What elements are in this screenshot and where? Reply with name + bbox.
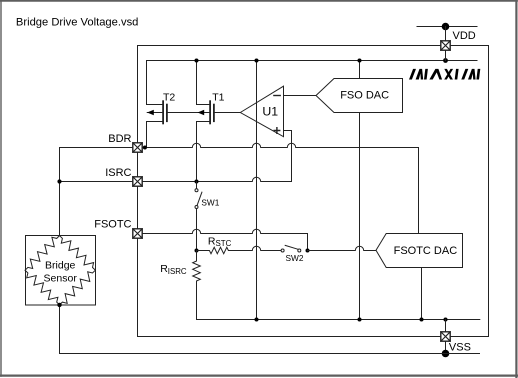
wire: SW2 node to FSOTC DAC input	[308, 246, 377, 250]
node: VDD external dot	[442, 23, 450, 31]
pin ISRC	[133, 177, 142, 186]
bridge sensor resistor top-right	[60, 236, 96, 271]
node: external ISRC-BDR junction dot	[57, 179, 61, 183]
node: BDR junction dot	[143, 146, 147, 150]
wire: R_STC to SW2	[230, 246, 281, 250]
transistor T2	[147, 101, 167, 123]
switch SW2	[281, 245, 301, 252]
MAXIM logo	[409, 69, 480, 80]
wire: BDR net from pin to FSOTC DAC top	[142, 143, 418, 233]
wire: ISRC net from pin to U1 + corner	[142, 177, 291, 181]
transistor T1	[197, 101, 214, 123]
wire: ISRC external	[60, 181, 133, 183]
wire: top VDD rail inside IC	[147, 60, 478, 62]
svg-text:FSO DAC: FSO DAC	[340, 90, 389, 102]
node: SW2-FSOTC junction dot	[306, 249, 310, 253]
bridge sensor resistor top-left	[25, 236, 59, 271]
svg-text:ISRC: ISRC	[105, 167, 131, 179]
node: bridge bottom junction dot	[57, 303, 61, 307]
wire: T2 drain to top rail	[146, 61, 148, 105]
wire: T1 drain to top rail	[196, 61, 198, 105]
pin VDD	[441, 41, 450, 50]
svg-text:T2: T2	[163, 92, 175, 104]
power VSS drop from bottom rail	[445, 320, 447, 332]
switch SW1	[195, 182, 202, 251]
IC boundary box	[138, 46, 489, 337]
wire: T2 gate to T1 bulk line	[167, 112, 210, 114]
FSOTC DAC block	[376, 234, 463, 268]
svg-text:Sensor: Sensor	[44, 272, 78, 284]
pin VSS	[441, 332, 450, 341]
wire: BDR external to bridge top	[60, 148, 133, 236]
pin BDR	[133, 143, 142, 152]
svg-text:BDR: BDR	[108, 133, 131, 145]
svg-text:U1: U1	[262, 105, 278, 119]
wire: external VSS rail from bridge bottom	[60, 305, 480, 354]
wire: FSO DAC bottom pin to bottom rail	[359, 113, 361, 320]
node: junction dots on top rail	[195, 58, 448, 63]
resistor R_STC	[197, 250, 208, 252]
wire: FSO DAC top pin to VDD rail	[359, 61, 361, 79]
bridge sensor resistor bottom-right	[60, 270, 96, 305]
bridge sensor resistor bottom-left	[25, 270, 59, 305]
svg-text:SW2: SW2	[286, 253, 304, 263]
wire: T1 source down to ISRC node	[196, 122, 198, 182]
wire: FSOTC net from pin to SW2 node	[142, 229, 307, 250]
wire: VSS pin to external rail	[445, 341, 447, 353]
power VDD external wire	[417, 26, 477, 28]
wire: U1 supply line from top rail to bottom rail	[256, 61, 258, 320]
node: junction dots on bottom rail	[255, 318, 448, 322]
wire: FSOTC DAC bottom pin to bottom rail	[421, 268, 423, 320]
wire: T2 source down to BDR node	[146, 122, 148, 148]
node: R_STC left junction dot	[195, 249, 199, 253]
svg-text:SW1: SW1	[201, 197, 219, 207]
svg-text:FSOTC: FSOTC	[94, 219, 131, 231]
wire: U1 non-inverting input down to ISRC net	[284, 131, 292, 182]
resistor R_ISRC	[196, 251, 198, 260]
svg-text:Bridge Drive Voltage.vsd: Bridge Drive Voltage.vsd	[16, 16, 139, 28]
svg-text:T1: T1	[212, 92, 224, 104]
op-amp U1	[240, 86, 283, 137]
svg-text:Bridge: Bridge	[45, 259, 76, 271]
bridge sensor box	[26, 236, 96, 306]
wire: U1 inverting input to FSO DAC	[284, 95, 317, 97]
wire: VDD dot to pin	[445, 27, 447, 41]
pin FSOTC	[133, 229, 142, 238]
wire: VDD pin to top rail	[445, 50, 447, 60]
wire: bottom rail inside IC	[197, 319, 480, 321]
svg-text:VDD: VDD	[453, 30, 476, 42]
wire: T1 gate to U1 output	[214, 112, 240, 114]
node: VSS external dot	[442, 350, 450, 358]
svg-text:VSS: VSS	[449, 342, 471, 354]
FSO DAC block	[316, 79, 403, 113]
svg-text:FSOTC DAC: FSOTC DAC	[394, 245, 458, 257]
node: ISRC junction dot at T1 source	[195, 180, 199, 184]
